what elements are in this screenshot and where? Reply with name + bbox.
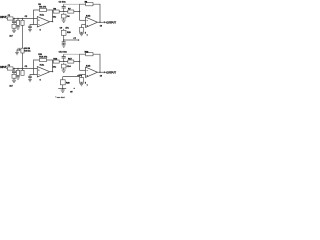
ground below middle network [63,68,65,70]
wire second-stage feedback loop [64,3,80,5]
wire inverting stub [80,69,86,71]
wire input line [6,68,37,70]
wire inverting-input stub and feedback loop [34,10,53,25]
capacitor C1 [13,19,15,22]
node second-stage input junction [79,11,81,13]
op-amp IC1a [37,17,50,28]
svg-text:C13 10n: C13 10n [59,52,68,54]
resistor R14 [22,69,24,71]
svg-text:R15: R15 [38,54,41,56]
ground at lower bus [61,90,65,92]
svg-text:6: 6 [40,29,41,31]
wire middle network line [53,11,80,13]
resistor R8 (feedback) [86,3,93,6]
node junction b [17,68,19,70]
ground for input column 2 [17,25,19,27]
svg-text:R15 47k: R15 47k [39,55,48,58]
svg-text:10: 10 [100,76,102,78]
wire op-amp a output [50,71,53,73]
node feedback/output junction [52,71,54,73]
wire inverting-input stub and feedback loop [34,60,53,75]
ground at bias resistor [81,82,83,83]
resistor R4 [22,19,24,21]
op-amp IC2a [37,67,50,78]
ground for input column 1 [13,78,15,80]
node rail joins lower input [22,68,24,70]
resistor R9 (rail) [21,48,24,53]
node lower bus junction [62,88,64,90]
svg-text:INPUT: INPUT [0,16,7,19]
node second-stage input junction [79,61,81,63]
ground below middle network [63,18,65,20]
capacitor C11 [13,69,15,72]
svg-text:OUTPUT: OUTPUT [106,71,116,74]
node output junction [99,21,101,23]
output arrow [104,21,106,23]
wire output [98,21,105,23]
wire middle network line [53,61,80,63]
wire non-inverting stub [82,24,86,26]
wire input line [6,18,37,20]
svg-text:6: 6 [40,79,41,81]
svg-text:7: 7 [87,35,88,37]
node middle junction [63,11,65,13]
ground for input column 2 [17,75,19,77]
ground at inverting network [29,78,31,80]
resistor R3 [17,19,19,21]
node middle junction [63,61,65,63]
svg-text:+15V: +15V [77,75,82,77]
node junction a [13,18,15,20]
op-amp IC1b [86,17,98,28]
capacitor C2 to ground [30,25,34,27]
wire non-inverting stub [82,74,86,76]
capacitor C13 (bridge) [63,58,65,62]
wire lower supply branch [63,76,80,78]
resistor R7 [68,10,74,13]
resistor R16 [53,60,59,63]
ground for input column 1 [13,28,15,30]
svg-text:4u7: 4u7 [9,85,12,88]
resistor R13 [17,69,19,71]
node junction a [13,68,15,70]
output arrow [104,71,106,73]
ground at bias resistor [81,32,83,33]
svg-text:4u7: 4u7 [9,35,12,38]
svg-text:* see text: * see text [55,96,64,99]
node output junction [99,71,101,73]
wire second-stage feedback loop [64,53,80,55]
svg-text:INPUT: INPUT [0,66,7,69]
resistor R20 (supply) [62,77,64,80]
resistor R17 [68,60,74,63]
svg-text:R9 1M: R9 1M [24,48,30,50]
resistor R5 (feedback) [40,8,47,11]
node feedback/output junction [52,21,54,23]
node supply branch end [78,39,80,41]
resistor R9 (bias) [81,25,83,28]
ground at decoupling cap [63,43,65,45]
resistor R1 [7,17,13,20]
wire inverting stub [80,19,86,21]
svg-text:R5 47k: R5 47k [39,5,47,8]
resistor R2 [13,23,15,25]
node junction c [22,68,24,70]
wire supply branch [64,39,79,41]
node supply branch junction [63,39,65,41]
wire to lower ground bus [62,85,64,89]
capacitor C8 (rail decoupling) [19,49,21,51]
node second bus junction [74,88,75,89]
wire bias rail (shared) [22,25,24,68]
svg-text:OUTPUT: OUTPUT [106,21,116,24]
resistor R10 (supply) [63,29,65,40]
capacitor C12 to ground [30,75,34,77]
ground at rail cap [15,52,19,54]
op-amp IC2b [86,67,98,78]
wire op-amp a output [50,21,53,23]
svg-text:10: 10 [100,26,102,28]
wire output [98,71,105,73]
svg-text:C3 10n: C3 10n [59,2,67,4]
resistor R12 [13,73,15,75]
svg-text:C8 10u: C8 10u [24,51,31,53]
resistor R15 (feedback) [40,58,47,61]
capacitor C4 to ground [63,13,65,14]
resistor R6 [53,10,59,13]
svg-text:7: 7 [87,85,88,87]
capacitor C8 (decoupling) [63,40,65,42]
capacitor C3 (bridge) [63,8,65,12]
ground at inverting network [29,28,31,30]
resistor R18 (feedback) [86,53,93,56]
capacitor C14 to ground [63,63,65,64]
node junction c [22,18,24,20]
resistor R11 [7,67,13,70]
node junction b [17,18,19,20]
svg-text:R5: R5 [38,4,40,6]
resistor R19 (bias) [81,75,83,78]
